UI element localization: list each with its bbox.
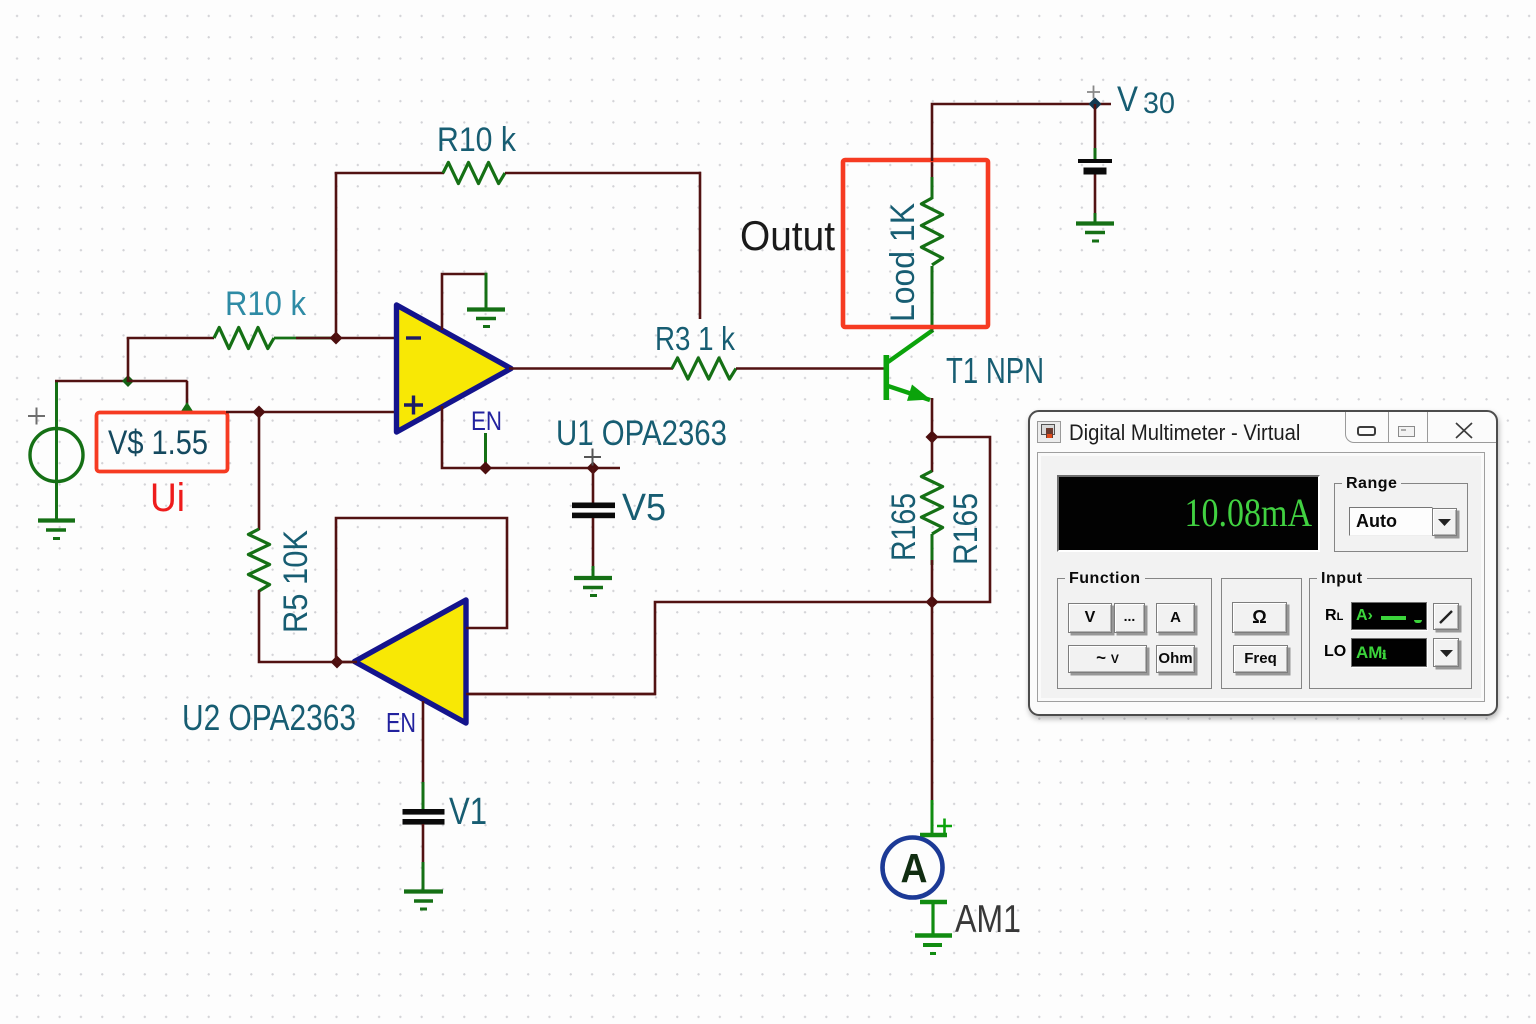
U2 feedback wire box: [336, 518, 507, 661]
junction sense node: [926, 596, 939, 609]
junction V30 node (navy diamond): [1089, 98, 1102, 111]
source V5 plates: [572, 503, 615, 519]
button AC V: [1068, 645, 1147, 673]
svg-text:V1: V1: [449, 791, 487, 833]
junction inverting node: [330, 332, 343, 345]
resistor R5 10K: [248, 529, 269, 591]
wire source top to node A: [55, 380, 128, 383]
wire parallel loop right side: [932, 437, 990, 602]
LCD LO: [1351, 638, 1427, 667]
wire emitter node to R165: [931, 437, 934, 472]
svg-text:EN: EN: [386, 707, 416, 738]
svg-text:V$ 1.55: V$ 1.55: [108, 424, 208, 462]
wire plus node down to R5: [258, 412, 261, 530]
svg-text:Outut: Outut: [740, 212, 835, 259]
wire V30 node down to battery: [1094, 104, 1097, 160]
U1 minus mark: [406, 336, 421, 339]
wire down to probe triangle: [186, 381, 189, 406]
wire feedback vertical right (ends above R3 label): [699, 172, 702, 319]
svg-text:30: 30: [1143, 87, 1175, 120]
resistor R165: [921, 471, 942, 534]
middle group: [1221, 578, 1302, 689]
Function group: [1057, 578, 1212, 689]
U1 bottom pin wire: [442, 406, 620, 468]
svg-text:A: A: [901, 845, 928, 891]
DMM inner panel: [1037, 452, 1485, 702]
svg-text:R10 k: R10 k: [437, 121, 517, 159]
battery V30 plates: [1078, 159, 1112, 175]
wire sense node left to U2: [468, 602, 933, 694]
wire load top lead: [931, 160, 934, 179]
probe terminal triangle: [181, 402, 194, 412]
wire feedback top left segment: [335, 172, 444, 175]
svg-text:U2 OPA2363: U2 OPA2363: [182, 697, 356, 738]
resistor R3 1k: [672, 358, 736, 379]
plus mark ammeter: [937, 819, 952, 834]
wire load top to V30: [932, 104, 1111, 161]
wire emitter down: [931, 398, 934, 438]
wire right lead of input R10k to inverting node: [274, 337, 338, 340]
node A junction (green diamond): [122, 375, 134, 387]
button edit: [1433, 603, 1459, 630]
source V1 plates: [403, 809, 445, 825]
plus mark above V30: [1087, 86, 1100, 99]
svg-text:V: V: [1117, 80, 1139, 119]
button Ohm symbol: [1232, 602, 1287, 633]
DMM title text: [1069, 420, 1300, 446]
U1 top supply pin wire: [442, 274, 487, 330]
LCD HI: [1351, 602, 1427, 630]
U1 supply to ground wire: [485, 273, 488, 309]
button dots: [1114, 603, 1145, 633]
svg-text:R165: R165: [947, 493, 985, 565]
junction emitter node: [926, 431, 939, 444]
button select: [1433, 638, 1459, 667]
svg-text:U1 OPA2363: U1 OPA2363: [556, 414, 727, 453]
ground below AM1: [915, 936, 952, 954]
resistor Lood 1K (load): [921, 198, 942, 265]
ground above U1: [467, 310, 505, 327]
resistor R10k (input): [214, 327, 274, 348]
wire R5 bottom to U2 input node: [259, 590, 356, 662]
junction plus node: [253, 406, 266, 419]
DMM caption buttons group: [1345, 412, 1496, 443]
svg-text:R3 1 k: R3 1 k: [655, 320, 735, 357]
ground below V5: [574, 578, 612, 596]
Input group: [1309, 578, 1472, 689]
U1 plus mark: [404, 396, 423, 415]
wire probe box to plus node: [226, 411, 397, 414]
transistor T1 NPN: [884, 330, 934, 401]
label HI: [1325, 607, 1343, 625]
wire left lead of input R10k: [127, 337, 214, 340]
ammeter AM1: [883, 835, 948, 934]
wire U2 plus input to sense line: [466, 693, 656, 696]
wire node A up to R10k input: [127, 338, 130, 383]
probe box V$ 1.55: [97, 413, 228, 472]
op-amp U1: [397, 305, 512, 432]
svg-text:AM1: AM1: [955, 898, 1021, 941]
wire feedback top right segment: [505, 172, 701, 175]
junction V5 node: [587, 462, 600, 475]
wire feedback vertical left: [335, 172, 338, 338]
button Ohm: [1156, 645, 1195, 673]
op-amp U2 (mirrored): [355, 600, 467, 723]
multimeter window U_DMM: [1028, 410, 1498, 716]
Auto combo field: [1349, 507, 1433, 536]
DMM title icon: [1037, 421, 1061, 443]
junction EN/V- node: [479, 462, 492, 475]
ground below V30: [1076, 224, 1114, 242]
U1 EN pin stub: [484, 433, 487, 468]
Auto combo button: [1432, 508, 1457, 536]
wire R3 to T1 base: [736, 367, 885, 370]
DMM display: [1057, 475, 1320, 552]
button Freq: [1233, 645, 1288, 673]
svg-text:EN: EN: [471, 406, 502, 436]
svg-text:R10 k: R10 k: [225, 285, 307, 323]
svg-text:R165: R165: [885, 493, 923, 561]
button A: [1156, 603, 1195, 633]
label LO: [1324, 643, 1346, 661]
ground below V$: [38, 521, 75, 539]
Range group: [1334, 483, 1468, 552]
wire node A right to V$ label tap: [128, 380, 188, 383]
wire battery to ground: [1094, 175, 1097, 223]
svg-text:Ui: Ui: [150, 476, 185, 520]
wire U1 output: [509, 367, 673, 370]
button V: [1068, 603, 1112, 633]
red highlight box around load: [843, 160, 988, 327]
svg-text:V5: V5: [622, 487, 666, 529]
U2 EN wire down: [422, 701, 425, 810]
restore glyph: [1398, 426, 1415, 437]
ground below V1: [404, 892, 443, 910]
svg-text:T1 NPN: T1 NPN: [946, 350, 1044, 391]
resistor R10k (feedback): [443, 162, 505, 183]
svg-text:R5 10K: R5 10K: [277, 530, 315, 633]
wire V5 node down: [592, 468, 595, 503]
close glyph: [1453, 421, 1475, 440]
voltage source V$: [28, 381, 83, 519]
wire R165 bottom lead: [931, 534, 934, 565]
wire V1 to ground: [422, 824, 425, 890]
minimize glyph: [1357, 426, 1376, 436]
wire sense node down to ammeter: [931, 602, 934, 834]
junction U2 input node: [331, 656, 344, 669]
wire U2 output apex: [336, 661, 357, 664]
wire collector up into load: [931, 266, 934, 332]
wire V5 bottom to ground: [592, 518, 595, 577]
wire inverting node to U1 minus input: [336, 337, 397, 340]
svg-text:Lood 1K: Lood 1K: [884, 203, 922, 322]
plus mark above V5: [584, 449, 601, 466]
